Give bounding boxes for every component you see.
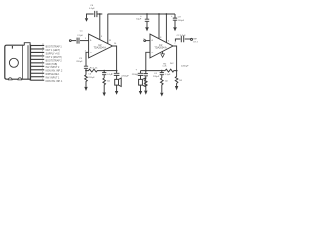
svg-text:C3: C3: [79, 58, 83, 60]
ground arrow feedback1: [84, 87, 87, 91]
svg-text:R1 1.2k: R1 1.2k: [90, 67, 98, 69]
pin 7 lead: [31, 65, 44, 67]
junction node rail-boot2: [166, 13, 168, 15]
svg-text:C1: C1: [80, 30, 84, 32]
svg-text:2200µ: 2200µ: [132, 74, 139, 76]
ground arrow Zobel2: [160, 93, 163, 97]
svg-text:C9: C9: [178, 16, 182, 18]
wire C2 to input2 terminal: [185, 38, 191, 40]
svg-text:−: −: [90, 51, 92, 55]
svg-text:11: 11: [109, 40, 112, 42]
svg-text:11: 11: [42, 44, 44, 46]
Zobel 1 resistor 1 ohm zigzag: [103, 78, 106, 93]
wire op-amp2 output: [173, 46, 177, 70]
IC package mounting hole: [9, 58, 18, 67]
ground stub on op-amp2 bottom edge: [162, 52, 164, 54]
IC package top index tick: [11, 46, 13, 49]
IC package bottom notch 2: [18, 78, 22, 80]
svg-text:TDA2004 A: TDA2004 A: [94, 47, 107, 50]
capacitor C7 10uF to ground: [145, 14, 149, 27]
wire net2: [146, 70, 177, 72]
svg-text:2200µF: 2200µF: [181, 65, 189, 67]
svg-text:4: 4: [42, 68, 43, 70]
svg-text:220µF: 220µF: [88, 77, 95, 79]
svg-text:1: 1: [85, 38, 87, 40]
junction node rail-C7: [146, 13, 148, 15]
pin 6 lead: [31, 62, 44, 64]
svg-text:OUT 1 (LEFT): OUT 1 (LEFT): [46, 50, 61, 52]
wire op-amp1 inverting input down: [86, 52, 89, 66]
wire supply tap to op-amp 1 pin: [99, 14, 101, 40]
svg-text:2.2µF: 2.2µF: [77, 35, 83, 37]
IC package bottom notch 1: [8, 78, 12, 80]
svg-text:10: 10: [42, 47, 44, 49]
svg-text:8: 8: [160, 37, 162, 39]
IC package body right edge: [27, 45, 29, 79]
svg-text:BOOTSTRAP 1: BOOTSTRAP 1: [46, 45, 63, 48]
wire C1 to op-amp1 noninverting input: [80, 40, 89, 42]
IC package pin column: [29, 45, 31, 81]
ground arrow speaker1: [115, 91, 118, 95]
ground arrow channel2 resistor: [175, 86, 178, 90]
svg-text:+: +: [151, 39, 153, 43]
op-amp U1b triangle: [150, 34, 173, 58]
IC package center divider: [22, 45, 24, 79]
pin 3 lead: [31, 51, 44, 53]
capacitor C9 100uF to ground: [173, 14, 177, 27]
svg-text:100µF: 100µF: [178, 20, 185, 22]
resistor feedback 1 series zigzag: [85, 75, 88, 87]
svg-text:INV. INPUT 1: INV. INPUT 1: [46, 78, 60, 80]
junction node rail-bypass: [99, 13, 101, 15]
pin 10 lead: [31, 76, 44, 78]
IC package top tab bump: [24, 43, 30, 46]
svg-text:3: 3: [42, 72, 43, 74]
wire speaker 2 to ground: [140, 85, 142, 91]
svg-text:BOOTSTRAP 2: BOOTSTRAP 2: [46, 59, 63, 62]
junction Zobel1: [103, 70, 105, 72]
pin 9 lead: [31, 72, 44, 74]
svg-text:RIPPLE REJ.: RIPPLE REJ.: [46, 74, 60, 76]
input 2 right terminal: [191, 38, 193, 40]
svg-text:NON INV. INP. 1: NON INV. INP. 1: [46, 81, 63, 83]
svg-text:0.1µF: 0.1µF: [89, 8, 95, 10]
wire input1 to C1: [71, 40, 76, 42]
junction net2 left: [145, 70, 147, 72]
svg-text:2: 2: [42, 75, 43, 77]
svg-text:9: 9: [101, 36, 103, 38]
wire op-amp2 inverting input down: [146, 52, 150, 70]
svg-text:2k2: 2k2: [170, 63, 174, 65]
wire to op-amp2 noninverting input: [146, 40, 150, 42]
ground arrow on op-amp2 gnd pin: [161, 54, 165, 58]
svg-text:C4: C4: [154, 73, 158, 75]
svg-text:OUT 2 (RIGHT): OUT 2 (RIGHT): [46, 57, 62, 59]
wire op-amp1 output: [113, 46, 117, 70]
resistor feedback 2 series zigzag: [145, 79, 148, 90]
capacitor C1 2.2uF input coupling: [77, 38, 79, 44]
ground arrow below C7: [145, 27, 149, 31]
svg-text:1: 1: [42, 79, 43, 81]
svg-text:6: 6: [168, 41, 170, 43]
capacitor C2 2.2uF input coupling 2: [181, 36, 183, 42]
speaker 2: [139, 78, 146, 87]
svg-text:−: −: [151, 51, 153, 55]
resistor channel2 output to ground zigzag: [175, 70, 178, 86]
junction node rail-tap2: [158, 13, 160, 15]
op-amp U1a triangle: [89, 34, 113, 58]
svg-text:INP.: INP.: [193, 38, 197, 40]
svg-text:SUPPLY +VS: SUPPLY +VS: [46, 53, 60, 55]
speaker 1: [115, 78, 122, 87]
svg-text:+: +: [136, 68, 138, 71]
ground arrow speaker2: [139, 91, 142, 95]
Zobel 1 capacitor 0.1uF: [102, 71, 106, 78]
wire supply rail: [97, 13, 175, 15]
capacitor C3 220uF feedback 1: [84, 66, 88, 75]
svg-text:1Ω: 1Ω: [179, 80, 182, 82]
svg-text:1Ω: 1Ω: [107, 81, 110, 83]
svg-text:TDA2004 A: TDA2004 A: [154, 47, 167, 50]
ground arrow Zobel1: [103, 93, 106, 97]
wire bootstrap tap to op-amp 2 pin: [165, 14, 167, 43]
svg-text:C3: C3: [88, 74, 92, 76]
resistor R2 feedback 2 zigzag: [165, 69, 174, 72]
pin 11 lead: [31, 79, 44, 81]
wire bootstrap tap to op-amp 1 pin: [107, 14, 109, 44]
ground arrow below C9: [173, 27, 177, 31]
svg-text:220µF: 220µF: [76, 61, 83, 63]
svg-text:1Ω: 1Ω: [165, 81, 168, 83]
ground arrow at bypass: [85, 18, 88, 22]
pin 8 lead: [31, 69, 44, 71]
svg-text:10: 10: [114, 43, 117, 45]
capacitor C6 0.1uF plates: [95, 11, 97, 17]
svg-text:+: +: [171, 15, 173, 18]
svg-text:+: +: [140, 15, 142, 18]
svg-text:GND (TAB): GND (TAB): [46, 63, 58, 66]
capacitor C4 220uF feedback 2: [144, 71, 148, 80]
input 1 terminal: [69, 40, 71, 42]
svg-text:7: 7: [42, 58, 43, 60]
wire net1 to output junction: [104, 70, 116, 72]
output 1 coupling capacitor 2200uF: [114, 70, 120, 79]
Zobel 2 resistor 1 ohm zigzag: [161, 78, 164, 93]
ground symbol at supply bypass: [87, 14, 94, 18]
svg-text:6: 6: [42, 61, 43, 63]
svg-text:C2 2.2µF: C2 2.2µF: [177, 35, 187, 37]
svg-text:2200µF: 2200µF: [121, 75, 129, 77]
svg-text:+: +: [90, 39, 92, 43]
svg-text:9: 9: [42, 51, 43, 53]
svg-text:10µF: 10µF: [136, 18, 142, 20]
pin 4 lead: [31, 55, 44, 57]
svg-text:0.1µF: 0.1µF: [165, 74, 171, 76]
IC package U1 body outline: [5, 45, 31, 79]
junction output1: [116, 70, 118, 72]
svg-text:8: 8: [42, 54, 43, 56]
svg-text:UT 2: UT 2: [193, 41, 198, 43]
ground arrow feedback2: [144, 91, 147, 95]
wire speaker2 chain stub to net2: [141, 71, 146, 74]
junction Zobel2: [161, 70, 163, 72]
capacitor 2200uF channel2 output: [138, 73, 144, 79]
Zobel 2 capacitor 0.1uF: [160, 71, 164, 78]
resistor R1 feedback 1 zigzag: [86, 69, 104, 72]
pin 5 lead: [31, 58, 44, 60]
input 2 coupling network wire left: [175, 39, 180, 42]
wire speaker 1 to ground: [116, 85, 118, 91]
svg-text:7: 7: [174, 43, 176, 45]
svg-text:1.2k: 1.2k: [162, 66, 167, 68]
pin 1 lead: [31, 45, 44, 47]
svg-text:C6: C6: [90, 5, 94, 7]
pin 2 lead: [31, 48, 44, 50]
svg-text:5: 5: [42, 65, 43, 67]
svg-text:INV. INPUT 2: INV. INPUT 2: [46, 67, 60, 69]
svg-text:220µF: 220µF: [153, 76, 160, 78]
junction net1 left: [85, 70, 87, 72]
svg-text:NON INV. INP. 2: NON INV. INP. 2: [46, 71, 63, 73]
junction output2: [176, 70, 178, 72]
input 2 terminal: [144, 40, 146, 42]
wire supply tap to op-amp 2 pin: [158, 14, 160, 39]
